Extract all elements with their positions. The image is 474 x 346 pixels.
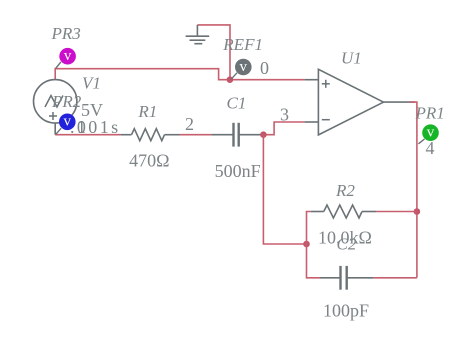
wire: C1 to op-amp inverting input (node 3): [261, 122, 305, 135]
probe PR1: [418, 124, 438, 143]
wire: ground branch down to node 0 junction: [197, 25, 230, 80]
svg-text:470Ω: 470Ω: [129, 150, 169, 170]
capacitor C2: [320, 266, 374, 290]
svg-text:REF1: REF1: [222, 35, 263, 54]
wire: R2 right lead to output net: [376, 211, 417, 213]
svg-text:PR1: PR1: [415, 104, 445, 123]
svg-text:PR3: PR3: [51, 24, 81, 43]
svg-text:C2: C2: [337, 235, 357, 254]
node 0 junction dot: [227, 76, 234, 83]
svg-text:v: v: [240, 59, 248, 75]
wire: V1 bottom to R1: [54, 123, 56, 135]
voltage source V1: [34, 80, 77, 123]
svg-text:.001s: .001s: [70, 117, 121, 137]
probe PR2: [56, 114, 76, 135]
op-amp U1: [305, 69, 415, 135]
probe REF1: [231, 59, 252, 80]
feedback junction dot: [303, 241, 310, 248]
capacitor C1: [211, 123, 260, 147]
node 3 junction dot: [260, 131, 267, 138]
wire: feedback junction down to C2: [307, 244, 321, 278]
svg-text:PR2: PR2: [51, 92, 82, 111]
output junction dot at R2: [414, 208, 421, 215]
wire: feedback junction up to R2: [307, 212, 311, 245]
svg-text:U1: U1: [341, 49, 362, 68]
svg-text:R1: R1: [137, 102, 157, 121]
svg-text:2: 2: [185, 114, 194, 134]
resistor R2: [311, 205, 376, 218]
svg-text:v: v: [64, 48, 72, 64]
svg-text:C1: C1: [227, 94, 247, 113]
svg-text:v: v: [64, 114, 72, 130]
wire: node 3 down to feedback branch: [263, 135, 306, 244]
resistor R1: [121, 129, 180, 141]
svg-text:4: 4: [426, 138, 435, 158]
svg-text:3: 3: [280, 105, 289, 125]
svg-text:100pF: 100pF: [323, 301, 369, 321]
svg-text:R2: R2: [335, 181, 355, 200]
wire: V1 top to jog corner (top net): [55, 69, 304, 80]
svg-text:500nF: 500nF: [215, 161, 261, 181]
svg-text:V1: V1: [82, 73, 101, 92]
wire: op-amp output down right side (node 4): [410, 102, 417, 278]
ground symbol: [186, 25, 210, 44]
probe PR3: [56, 48, 76, 69]
wire: R1 to C1 (node 2): [180, 134, 212, 136]
wire: C2 right lead to output net: [374, 277, 417, 279]
svg-text:0: 0: [260, 58, 269, 78]
